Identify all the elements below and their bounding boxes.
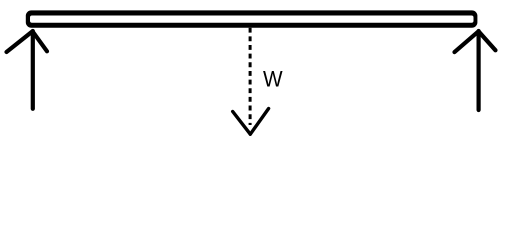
right support reaction arrow [455,31,496,110]
left support reaction arrow [7,31,48,109]
beam [26,10,478,27]
load W dashed arrow line [249,28,252,125]
svg-text:W: W [263,66,283,91]
load W arrowhead (open V) [233,109,269,135]
